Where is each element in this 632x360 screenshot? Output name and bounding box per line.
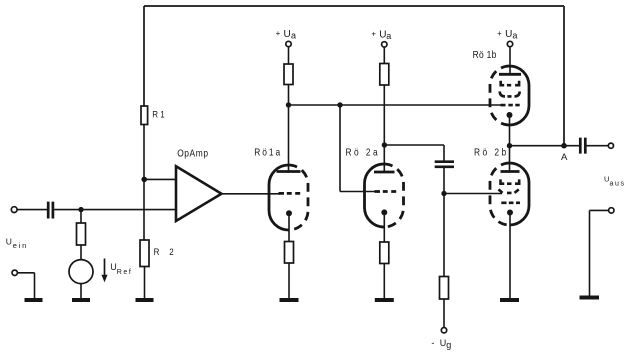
- svg-text:-: -: [431, 338, 434, 348]
- svg-text:ein: ein: [13, 241, 26, 250]
- svg-text:U: U: [6, 236, 12, 246]
- svg-text:+: +: [276, 29, 281, 38]
- svg-text:+: +: [371, 30, 376, 39]
- svg-text:U: U: [440, 338, 447, 348]
- svg-text:Rö1a: Rö1a: [254, 147, 282, 158]
- svg-text:R1: R1: [152, 109, 167, 120]
- svg-text:Rö 2a: Rö 2a: [346, 147, 381, 158]
- svg-text:R 2: R 2: [154, 246, 178, 257]
- svg-text:aus: aus: [610, 180, 625, 187]
- svg-text:a: a: [512, 30, 517, 40]
- svg-text:OpAmp: OpAmp: [177, 148, 208, 159]
- svg-text:U: U: [284, 29, 291, 40]
- svg-text:g: g: [446, 340, 451, 350]
- svg-text:U: U: [505, 29, 512, 40]
- svg-text:a: a: [291, 30, 296, 40]
- svg-text:Rö 1b: Rö 1b: [473, 49, 497, 60]
- svg-text:+: +: [497, 29, 502, 38]
- svg-text:Ref: Ref: [117, 269, 131, 276]
- svg-text:A: A: [561, 152, 568, 163]
- svg-text:Rö 2b: Rö 2b: [474, 147, 509, 158]
- svg-text:a: a: [386, 31, 391, 41]
